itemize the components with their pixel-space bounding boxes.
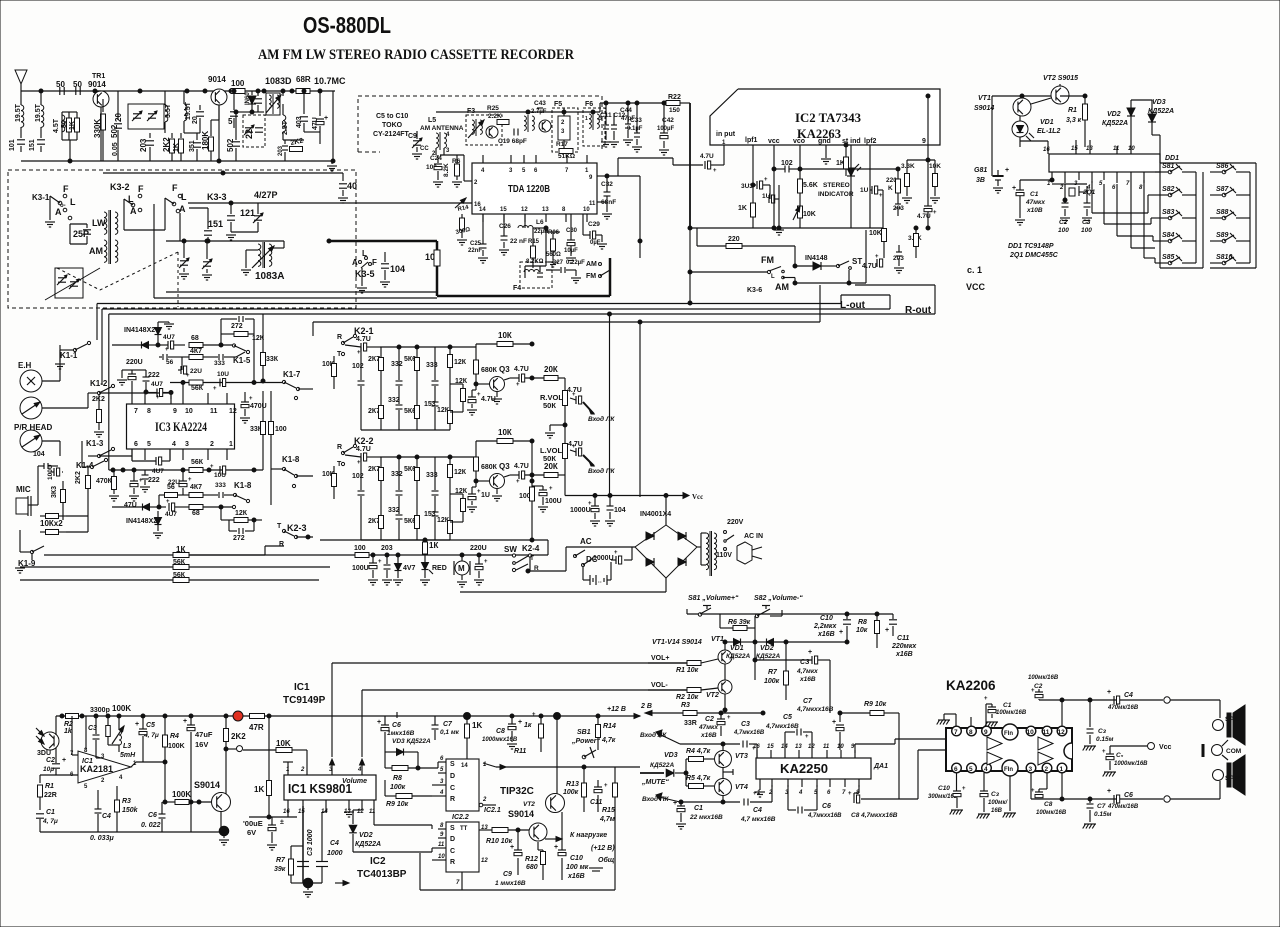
wire interconnect 4 (313, 321, 820, 323)
svg-text:4К7: 4К7 (190, 484, 202, 491)
svg-text:R: R (337, 444, 342, 451)
svg-text:C8 4,7мкхх16В: C8 4,7мкхх16В (851, 812, 898, 819)
svg-text:11: 11 (823, 744, 830, 750)
svg-text:Вход ЛК: Вход ЛК (640, 731, 667, 739)
svg-text:T: T (277, 523, 282, 530)
crystal 2Q1 (1064, 186, 1066, 196)
svg-text:4.7U: 4.7U (514, 366, 529, 373)
svg-text:22nF: 22nF (468, 248, 482, 254)
FM IF transformer mid (524, 116, 526, 121)
svg-text:4.7U: 4.7U (700, 153, 714, 160)
svg-text:4, 7μ: 4, 7μ (42, 818, 58, 825)
svg-text:20К: 20К (544, 462, 558, 471)
svg-text:OS-880DL: OS-880DL (303, 12, 391, 38)
svg-text:100мк/16В: 100мк/16В (996, 710, 1027, 716)
DD1 top pin stubs (1047, 147, 1049, 154)
svg-text:502: 502 (226, 138, 235, 152)
svg-text:272: 272 (231, 323, 243, 330)
capacitor 2.5T coil (282, 104, 284, 115)
svg-text:E.H: E.H (18, 361, 32, 370)
capacitor 22 trimmer box (243, 115, 265, 147)
svg-text:VD2: VD2 (359, 832, 373, 839)
wire bus junction dots (39, 89, 43, 93)
svg-text:100K: 100K (168, 743, 185, 750)
wire FM top rail (436, 111, 600, 113)
svg-text:0. 022: 0. 022 (141, 822, 161, 829)
svg-text:19.5T: 19.5T (15, 103, 22, 122)
svg-text:4: 4 (357, 767, 362, 773)
TDA pin 9 and 11 right (597, 175, 610, 177)
svg-text:TDA 1220B: TDA 1220B (508, 183, 550, 195)
svg-text:R7: R7 (276, 857, 286, 864)
svg-text:10: 10 (1027, 729, 1035, 736)
svg-text:203: 203 (278, 145, 284, 156)
black junction dot KS9801 (303, 878, 313, 888)
svg-text:FM: FM (761, 255, 774, 265)
svg-text:VT2: VT2 (706, 692, 719, 699)
svg-text:C10: C10 (938, 785, 950, 792)
svg-text:A: A (130, 206, 137, 216)
svg-text:R6 39к: R6 39к (728, 619, 751, 626)
wire VT1 VT2 emitters (724, 664, 726, 680)
svg-text:vco: vco (793, 138, 805, 145)
svg-text:C3 1000: C3 1000 (307, 829, 314, 856)
svg-text:R: R (337, 334, 342, 341)
svg-text:in put: in put (716, 131, 736, 138)
wire bottom long rail (420, 889, 615, 891)
svg-text:S83: S83 (1162, 209, 1175, 216)
capacitor C6 470mk low (1113, 795, 1115, 803)
svg-text:0µF: 0µF (590, 240, 601, 246)
capacitor at IN60 (257, 91, 259, 96)
svg-text:C29: C29 (588, 221, 600, 228)
KA2206 notch right (1064, 743, 1072, 759)
svg-text:0.22µF: 0.22µF (566, 260, 585, 266)
svg-text:C4: C4 (330, 840, 339, 847)
black junction dot (219, 826, 229, 836)
svg-text:470К: 470К (96, 478, 113, 485)
wire lower rail 2 (103, 172, 343, 174)
svg-text:2,2мкх: 2,2мкх (813, 623, 837, 630)
wire Q3 R output (504, 378, 510, 380)
svg-text:C3: C3 (741, 721, 750, 728)
svg-text:K3-1: K3-1 (32, 193, 50, 202)
svg-text:COM: COM (1226, 748, 1241, 755)
svg-text:10K: 10K (869, 230, 882, 237)
svg-text:C19 68pF: C19 68pF (498, 138, 527, 145)
svg-text:9014: 9014 (88, 80, 106, 89)
KA2206 top pin circles (952, 726, 962, 736)
svg-text:150k: 150k (122, 807, 139, 814)
svg-text:+: + (484, 559, 488, 565)
wire K3-3 output to TDA pin16 (258, 202, 437, 204)
svg-text:C: C (450, 785, 455, 792)
svg-text:STEREO: STEREO (823, 182, 850, 189)
svg-text:x16В: x16В (567, 873, 585, 880)
svg-text:4,7мкхх16В: 4,7мкхх16В (807, 813, 842, 819)
svg-text:R06: R06 (548, 230, 560, 236)
oscillator coil 1083A (258, 244, 261, 250)
inductor L3 5mH (119, 730, 122, 735)
svg-text:T: T (530, 555, 534, 562)
svg-text:К нагрузке: К нагрузке (570, 832, 607, 839)
svg-text:C7: C7 (443, 721, 453, 728)
wire bottom bus IC2 (690, 227, 883, 229)
svg-text:+: + (1107, 689, 1111, 696)
svg-text:AM: AM (586, 261, 597, 268)
wire K3 bottom rails (166, 240, 284, 242)
svg-text:3DU: 3DU (37, 750, 51, 757)
wire pin6 row (40, 774, 78, 776)
wire S81 down (719, 614, 721, 628)
ground gnd pin (825, 145, 827, 158)
svg-text:VD1: VD1 (1040, 119, 1054, 126)
svg-text:IC3 KA2224: IC3 KA2224 (155, 420, 208, 434)
svg-text:50: 50 (61, 120, 68, 128)
resistor 1K vertical (76, 112, 78, 118)
svg-text:12: 12 (521, 207, 528, 213)
svg-text:4.7U: 4.7U (862, 263, 877, 270)
wire Q3 L output (504, 475, 510, 477)
svg-text:SB1: SB1 (577, 729, 591, 736)
svg-text:(+12 В): (+12 В) (591, 845, 615, 852)
svg-text:SW: SW (504, 545, 517, 554)
svg-text:C1: C1 (1003, 702, 1012, 709)
svg-text:VD3 КД522A: VD3 КД522A (392, 738, 431, 745)
svg-text:33К: 33К (266, 356, 279, 363)
wires K3 switch columns (123, 199, 125, 230)
svg-text:AM FM LW STEREO RADIO CAS: AM FM LW STEREO RADIO CASSETTE RECORDER (258, 47, 574, 63)
wires mic area (28, 504, 38, 506)
dashed box F3 (466, 115, 502, 145)
svg-text:4.7U: 4.7U (917, 213, 931, 220)
svg-text:C8: C8 (1044, 801, 1053, 808)
wire bottom rail (1030, 773, 1032, 799)
svg-text:K3-5: K3-5 (355, 269, 375, 279)
svg-text:22R: 22R (44, 792, 57, 799)
capacitor C3 100 (1084, 202, 1091, 204)
IC2.1 left pins (438, 761, 446, 763)
svg-text:Q3: Q3 (499, 462, 510, 471)
svg-text:47мкх: 47мкх (1025, 199, 1045, 206)
svg-text:S81 „Volume+“: S81 „Volume+“ (688, 595, 739, 602)
wire driver emitter to dot (220, 812, 222, 828)
svg-text:··: ·· (598, 580, 602, 586)
wire mid verticals connect (396, 712, 398, 718)
svg-text:9014: 9014 (208, 75, 226, 84)
svg-text:C4: C4 (753, 807, 762, 814)
svg-text:13: 13 (795, 744, 802, 750)
svg-text:1 ммx16В: 1 ммx16В (495, 880, 526, 887)
coil L1 101 19.5T (20, 91, 22, 105)
svg-text:S: S (450, 825, 455, 832)
svg-text:R25: R25 (487, 105, 499, 112)
thick wire R22 down (680, 102, 690, 104)
svg-text:C7: C7 (803, 698, 813, 705)
svg-text:4,7к: 4,7к (601, 737, 616, 744)
svg-text:100: 100 (231, 79, 245, 88)
svg-text:203: 203 (381, 545, 393, 552)
svg-text:351: 351 (189, 140, 196, 152)
svg-text:EL-1L2: EL-1L2 (1037, 128, 1060, 135)
coil L2 151 19.5T (40, 91, 42, 105)
svg-text:TC9149P: TC9149P (283, 695, 326, 706)
wire right verticals to amp (609, 314, 611, 496)
transistor VT4 (715, 779, 732, 796)
svg-text:Вход ЛК: Вход ЛК (588, 415, 615, 423)
svg-text:2: 2 (300, 767, 305, 773)
wire right bus to 10.7MC out (319, 140, 321, 144)
switch AC contact (574, 555, 577, 558)
svg-text:10μ: 10μ (43, 766, 54, 773)
svg-text:F: F (372, 258, 377, 267)
wire pin11 to IC2.2 (373, 806, 375, 825)
resistor 50 vertical (68, 112, 70, 118)
svg-text:47R: 47R (249, 723, 264, 732)
capacitor C4 470mk (1113, 696, 1115, 704)
wire vcc down (773, 145, 775, 228)
IC DD1 TC9148P box (1049, 154, 1160, 172)
svg-text:C44: C44 (620, 107, 632, 114)
svg-text:„Power“: „Power“ (571, 738, 601, 745)
svg-text:+: + (962, 786, 966, 792)
svg-text:12: 12 (1058, 729, 1066, 736)
svg-text:C7: C7 (1097, 803, 1106, 810)
wire 4.5T group top/bottom rails (62, 111, 77, 113)
svg-text:10К: 10К (498, 428, 512, 437)
svg-text:68nF: 68nF (601, 199, 616, 206)
svg-text:SP R: SP R (1225, 775, 1240, 782)
svg-text:TC4013BP: TC4013BP (357, 869, 407, 880)
svg-text:10.7MC: 10.7MC (314, 76, 346, 86)
F6 discriminator coil (589, 114, 591, 119)
svg-text:4,7мкхх16В: 4,7мкхх16В (796, 706, 834, 713)
wire VD2 to IC2.2 (353, 851, 432, 853)
svg-text:C2: C2 (46, 757, 55, 764)
thick bus wires (329, 240, 437, 243)
svg-text:+: + (572, 444, 576, 450)
svg-text:K1-3: K1-3 (86, 439, 104, 448)
svg-text:+: + (1012, 185, 1016, 192)
svg-text:ST: ST (852, 257, 862, 266)
svg-text:RED: RED (432, 565, 447, 572)
svg-text:10: 10 (438, 854, 445, 860)
transistor VT3 (715, 751, 732, 768)
svg-text:332: 332 (391, 471, 403, 478)
svg-text:+: + (1031, 688, 1035, 694)
KA2206 bottom pin circles (952, 763, 962, 773)
svg-text:470мк/16В: 470мк/16В (1107, 804, 1139, 810)
svg-text:680К: 680К (481, 367, 498, 374)
svg-text:R8: R8 (858, 619, 867, 626)
svg-text:R4: R4 (170, 733, 179, 740)
svg-text:+: + (135, 721, 139, 728)
svg-text:+: + (554, 844, 558, 851)
wire heads column (42, 380, 60, 382)
svg-text:4V7: 4V7 (403, 565, 416, 572)
wire Vcc rail (565, 495, 683, 497)
wire pin2 to mixer (463, 155, 465, 181)
svg-text:104: 104 (614, 507, 626, 514)
svg-text:o-: o- (60, 203, 66, 209)
svg-text:C6: C6 (148, 812, 157, 819)
svg-text:+: + (357, 350, 361, 356)
svg-text:R2 10к: R2 10к (676, 694, 699, 701)
svg-text:F4: F4 (513, 285, 521, 292)
capacitor 50 series (59, 87, 61, 95)
svg-text:333: 333 (214, 360, 225, 367)
svg-text:КД522А: КД522А (726, 653, 751, 660)
svg-text:R9 10к: R9 10к (864, 701, 887, 708)
svg-text:KA2181: KA2181 (80, 764, 113, 774)
svg-text:х16В: х16В (895, 651, 913, 658)
svg-text:CC: CC (420, 146, 429, 152)
svg-text:КД522A: КД522A (355, 841, 381, 848)
svg-text:1K: 1K (472, 721, 482, 730)
svg-text:C5 to C10: C5 to C10 (376, 113, 408, 120)
coil 4.5T tap group (61, 112, 63, 140)
svg-text:±: ± (280, 819, 284, 826)
resistor 100k aux (106, 726, 111, 737)
svg-text:+: + (1102, 749, 1106, 755)
svg-text:15: 15 (500, 207, 507, 213)
wire main RF bus (21, 90, 335, 92)
svg-text:10: 10 (185, 408, 193, 415)
tuning gang 20 trimmer box (128, 104, 164, 129)
svg-text:222: 222 (148, 477, 160, 484)
svg-text:100к: 100к (764, 678, 780, 685)
svg-text:2: 2 (210, 441, 214, 448)
wire opamp output pin1 (131, 762, 136, 767)
svg-text:TR1: TR1 (92, 73, 105, 80)
svg-text:IN4148: IN4148 (805, 255, 828, 262)
svg-text:100к: 100к (390, 784, 406, 791)
EQ R middle joins (380, 393, 382, 399)
wire mid rail upper (320, 539, 548, 541)
svg-text:333: 333 (426, 472, 438, 479)
svg-text:C10: C10 (570, 855, 583, 862)
svg-text:R15: R15 (602, 807, 615, 814)
svg-text:+: + (510, 844, 514, 851)
svg-text:Cз: Cз (991, 791, 1000, 798)
wire VD2 VD3 top (1131, 99, 1152, 101)
svg-text:R: R (279, 541, 284, 548)
svg-text:C5: C5 (146, 722, 155, 729)
svg-text:12К: 12К (454, 469, 467, 476)
transistor Q3 R channel (490, 377, 505, 392)
svg-text:10K: 10K (276, 739, 291, 748)
svg-text:100мк/: 100мк/ (988, 800, 1008, 806)
svg-text:+: + (324, 115, 328, 122)
svg-text:A: A (352, 258, 358, 267)
svg-text:9: 9 (173, 408, 177, 415)
svg-text:+: + (249, 396, 253, 402)
svg-text:VT1-V14 S9014: VT1-V14 S9014 (652, 639, 702, 646)
svg-text:4,7 мкх16В: 4,7 мкх16В (740, 816, 776, 823)
svg-text:56: 56 (166, 359, 174, 366)
KA2250 top pins (756, 750, 758, 758)
svg-text:6: 6 (134, 441, 138, 448)
resistor 12K 272 parallel bottom (234, 518, 248, 523)
svg-text:R3: R3 (122, 798, 131, 805)
svg-text:56К: 56К (191, 385, 204, 392)
svg-text:2: 2 (1045, 766, 1049, 773)
wire R-out vertical (934, 285, 936, 314)
svg-text:333: 333 (215, 482, 226, 489)
diode left top row (142, 342, 149, 349)
wire bridge top to Vcc (665, 496, 667, 526)
svg-text:12: 12 (229, 408, 237, 415)
svg-text:3В: 3В (976, 177, 985, 184)
svg-text:C11: C11 (897, 635, 909, 642)
svg-text:R5 4,7к: R5 4,7к (686, 775, 711, 782)
svg-text:+: + (933, 210, 937, 216)
svg-text:11: 11 (369, 809, 376, 815)
svg-text:3,3 к: 3,3 к (1066, 117, 1082, 124)
wire AM ST row (783, 277, 795, 279)
EQ R bottom rail (361, 429, 450, 431)
svg-text:4К7: 4К7 (190, 348, 202, 355)
svg-text:+12 В: +12 В (607, 706, 626, 713)
svg-text:4U7: 4U7 (163, 334, 175, 341)
coil 19.5T FM osc (183, 91, 185, 104)
svg-text:K: K (888, 185, 893, 192)
svg-text:+: + (62, 757, 66, 764)
svg-text:TT: TT (460, 826, 468, 832)
svg-text:C33: C33 (630, 117, 642, 124)
svg-text:0,1 мк: 0,1 мк (440, 729, 460, 736)
ground lower rail right (331, 161, 333, 164)
svg-text:L: L (771, 274, 775, 280)
svg-text:DD1: DD1 (1165, 155, 1179, 162)
svg-text:332: 332 (391, 361, 403, 368)
transformer LW/AM (104, 212, 107, 218)
red dot marker (233, 711, 243, 721)
svg-text:VD2: VD2 (1107, 111, 1121, 118)
svg-text:1К: 1К (429, 541, 438, 550)
IC3 top pin stubs (131, 393, 133, 404)
svg-text:16В: 16В (991, 808, 1003, 814)
svg-text:+: + (572, 392, 576, 398)
svg-text:IC1: IC1 (294, 682, 310, 693)
svg-text:6V: 6V (247, 828, 256, 837)
wire L-out vertical (840, 295, 842, 304)
svg-text:+: + (477, 392, 481, 398)
svg-text:Vcc: Vcc (1159, 744, 1172, 751)
svg-text:151: 151 (208, 219, 223, 229)
svg-text:S86: S86 (1216, 163, 1229, 170)
svg-text:vcc: vcc (768, 138, 780, 145)
IC2.1 pin2 inverted output (479, 803, 483, 807)
svg-text:VT2 S9015: VT2 S9015 (1043, 75, 1078, 82)
transistor Q3 L channel (490, 474, 505, 489)
dashed gang link (57, 252, 178, 290)
svg-text:15: 15 (298, 809, 305, 815)
svg-text:+: + (832, 719, 836, 726)
wire keyboard top rail (992, 95, 1060, 97)
wire interconnect L-out (97, 303, 841, 305)
svg-text:+: + (210, 464, 214, 470)
svg-text:+: + (614, 550, 618, 556)
IC3 bottom pin stubs (131, 449, 133, 460)
wire interconnect 2 (102, 308, 890, 310)
svg-text:4.7U: 4.7U (356, 336, 371, 343)
svg-text:IC2.2: IC2.2 (452, 814, 469, 821)
wire R9 vertical to C8 (898, 713, 900, 799)
svg-text:TIP32C: TIP32C (500, 786, 534, 797)
svg-text:+: + (165, 347, 169, 353)
EQ L top rail (380, 456, 476, 458)
